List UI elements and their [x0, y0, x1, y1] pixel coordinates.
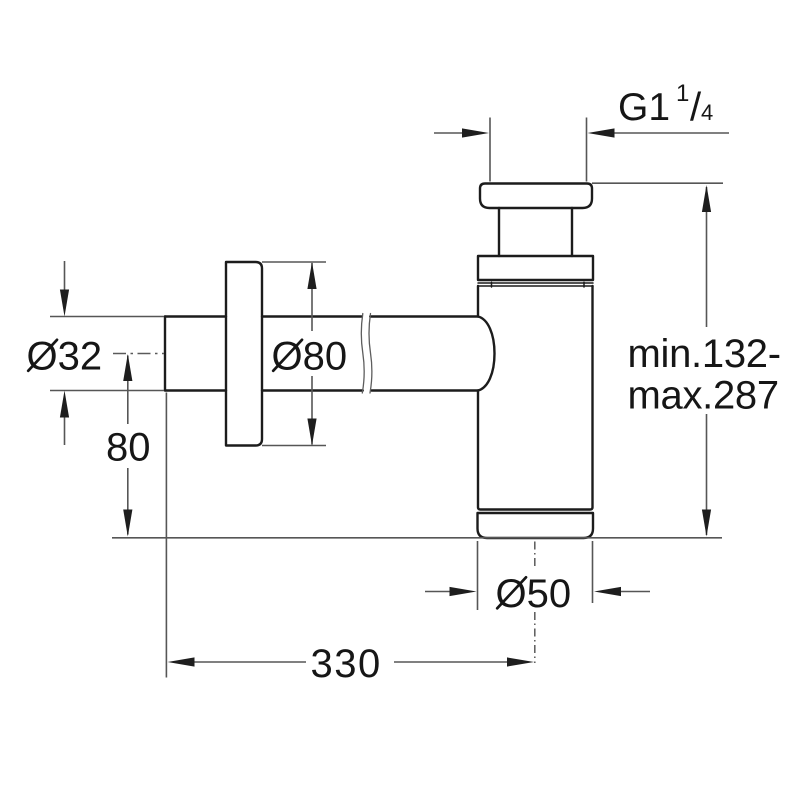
- trap body outline: [478, 286, 593, 510]
- outlet pipe top edge: [165, 315, 478, 317]
- outlet pipe bottom edge: [165, 389, 478, 391]
- svg-text:G1: G1: [618, 86, 670, 129]
- dia32 extension line top: [50, 316, 164, 318]
- break mark right: [369, 314, 372, 394]
- inlet neck right edge: [571, 208, 573, 256]
- 80 dimension line lower segment: [127, 468, 129, 535]
- 330 extension line: [165, 393, 167, 678]
- arrowhead dia32 top (points down): [60, 290, 69, 317]
- joint line upper: [478, 282, 593, 284]
- dia80 extension line top: [262, 261, 326, 263]
- 80 dimension line upper segment: [127, 356, 129, 425]
- dia50 extension line left: [477, 541, 479, 610]
- pipe break marks: [361, 314, 372, 394]
- G thread extension line right: [586, 118, 588, 182]
- arrowhead G left (points right): [462, 128, 489, 137]
- floor reference line: [112, 537, 722, 539]
- arrowhead height bottom (points down): [702, 510, 711, 537]
- joint tick right: [583, 282, 585, 287]
- 330 dimension line right segment: [394, 661, 508, 663]
- joint tick left: [491, 282, 493, 287]
- svg-text:O50: O50: [496, 572, 572, 616]
- dia80 extension line bottom: [262, 445, 326, 447]
- dia32 arrow shaft bottom: [64, 415, 66, 445]
- arrowhead G right (points left): [588, 128, 615, 137]
- break mark left: [361, 314, 364, 394]
- centerline vertical lower (body axis): [534, 612, 536, 663]
- G dimension line right segment: [614, 132, 730, 134]
- G thread extension line left: [489, 118, 491, 182]
- svg-text:O80: O80: [272, 335, 348, 379]
- 330 dimension line left segment: [193, 661, 306, 663]
- wall flange disc: [226, 262, 262, 446]
- dia50 dimension line right segment: [621, 591, 651, 593]
- arrowhead dia32 bottom (points up): [60, 391, 69, 418]
- svg-text:330: 330: [311, 642, 382, 686]
- inlet neck left edge: [498, 208, 500, 256]
- arrowhead height top (points up): [702, 185, 711, 212]
- joint line lower: [478, 285, 593, 287]
- outlet pipe left end: [164, 317, 166, 391]
- dia32 extension line bottom: [50, 390, 164, 392]
- dia80 dimension line upper segment: [311, 263, 313, 331]
- diameter slash for dia32: [28, 340, 57, 371]
- svg-text:min.132-: min.132-: [628, 332, 781, 376]
- diameter slash for dia50: [497, 577, 526, 608]
- union collar: [478, 256, 593, 280]
- arrowhead 80 top (points up): [123, 354, 132, 381]
- arrowhead 330 left (points left): [168, 657, 195, 666]
- centerline vertical upper (body axis): [534, 542, 536, 568]
- arrowhead dia80 top (points up): [307, 262, 316, 289]
- arrowhead dia50 right (points left): [594, 587, 621, 596]
- dia32 arrow shaft top: [64, 261, 66, 292]
- arrowhead 330 right (points right): [507, 657, 534, 666]
- bottom cap: [478, 513, 594, 538]
- arrowhead dia80 bottom (points down): [307, 419, 316, 446]
- svg-text:O32: O32: [27, 335, 103, 379]
- dia50 dimension line left segment: [425, 591, 451, 593]
- top reference line to height dimension: [592, 182, 723, 184]
- diameter slash for dia80: [273, 340, 302, 371]
- arrowhead 80 bottom (points down): [123, 510, 132, 537]
- dia80 dimension line lower segment: [311, 376, 313, 445]
- inlet flange: [480, 184, 592, 209]
- svg-text:80: 80: [106, 426, 151, 470]
- height dimension line upper segment: [706, 187, 708, 327]
- height dimension line lower segment: [706, 414, 708, 535]
- arrowhead dia50 left (points right): [450, 587, 477, 596]
- dia50 extension line right: [592, 541, 594, 603]
- inlet bulge into body: [478, 317, 495, 391]
- G dimension line left segment: [434, 132, 463, 134]
- centerline horizontal (pipe axis): [113, 353, 164, 355]
- svg-text:max.287: max.287: [628, 373, 779, 417]
- svg-text:1: 1: [676, 80, 689, 107]
- svg-text:4: 4: [701, 100, 713, 125]
